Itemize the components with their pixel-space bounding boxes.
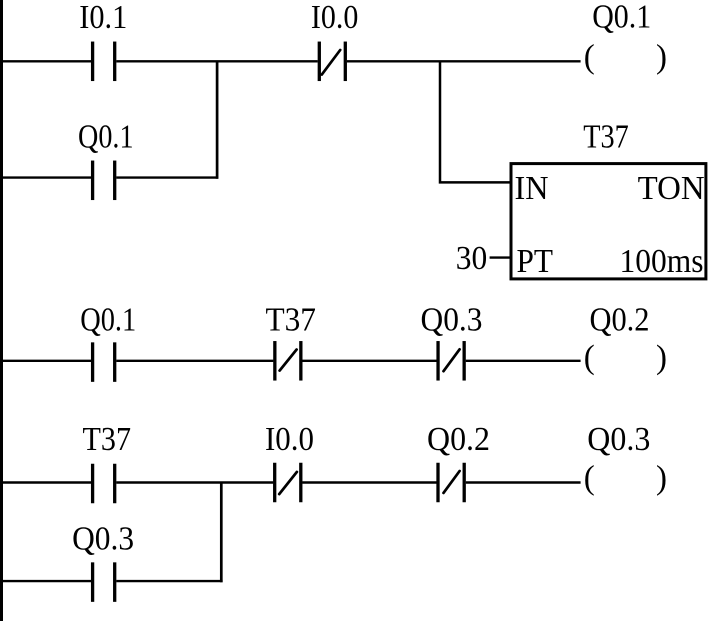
svg-text:T37: T37 — [83, 421, 132, 458]
svg-text:Q0.1: Q0.1 — [80, 301, 136, 338]
svg-text:T37: T37 — [265, 301, 316, 338]
contact T37 rung3 — [91, 464, 116, 504]
wire rail to I0.1 — [2, 60, 91, 62]
coil Q0.1 — [584, 38, 667, 75]
wire junction vertical rung1 — [216, 61, 219, 179]
svg-text:): ) — [656, 460, 667, 497]
svg-text:(: ( — [584, 38, 595, 75]
svg-text:I0.0: I0.0 — [311, 0, 359, 36]
contact Q0.1 rung2 — [91, 342, 116, 382]
svg-text:Q0.3: Q0.3 — [421, 301, 483, 338]
contact Q0.3 branch — [91, 562, 116, 602]
wire I0.1 to I0.0 — [116, 60, 317, 62]
svg-text:T37: T37 — [583, 119, 629, 156]
contact T37 rung2 (NC) — [273, 341, 302, 381]
svg-text:Q0.1: Q0.1 — [592, 0, 651, 36]
svg-text:30: 30 — [456, 240, 488, 277]
wire Q0.1 to T37 rung2 — [116, 360, 273, 362]
svg-text:Q0.3: Q0.3 — [587, 421, 650, 458]
contact I0.0 rung3 (NC) — [273, 463, 302, 503]
svg-text:Q0.1: Q0.1 — [78, 119, 134, 156]
left power rail — [0, 0, 3, 621]
timer T37 box — [511, 164, 706, 279]
wire T37 to Q0.3 rung2 — [302, 360, 436, 362]
wire T37 to I0.0 rung3 — [116, 481, 273, 483]
wire rail to T37 rung3 — [2, 481, 91, 483]
wire branch to timer IN — [440, 61, 510, 182]
wire rail to Q0.1 rung2 — [2, 360, 91, 362]
wire Q0.1 branch to junction — [116, 176, 218, 178]
wire Q0.2 to coil Q0.3 — [466, 481, 581, 483]
svg-text:100ms: 100ms — [620, 243, 704, 280]
svg-text:Q0.2: Q0.2 — [427, 421, 490, 458]
svg-text:(: ( — [584, 460, 595, 497]
wire I0.0 to Q0.2 rung3 — [302, 481, 436, 483]
svg-text:Q0.3: Q0.3 — [72, 520, 134, 557]
svg-text:): ) — [656, 38, 667, 75]
svg-text:): ) — [656, 339, 667, 376]
svg-text:Q0.2: Q0.2 — [590, 301, 650, 338]
wire Q0.3 to coil Q0.2 — [466, 360, 581, 362]
coil Q0.2 — [584, 339, 667, 376]
svg-text:I0.0: I0.0 — [265, 421, 314, 458]
wire junction vertical rung3 — [220, 483, 223, 583]
svg-text:I0.1: I0.1 — [79, 0, 127, 36]
contact Q0.1 branch — [91, 161, 116, 201]
wire PT stub — [490, 256, 511, 258]
svg-text:IN: IN — [515, 170, 549, 207]
contact Q0.3 rung2 (NC) — [436, 341, 465, 381]
svg-text:(: ( — [584, 339, 595, 376]
svg-text:TON: TON — [638, 170, 705, 207]
wire Q0.3 branch to junction — [116, 580, 222, 582]
contact I0.1 — [91, 42, 116, 82]
svg-text:PT: PT — [517, 243, 554, 280]
contact Q0.2 rung3 (NC) — [436, 463, 465, 503]
wire rail to Q0.3 branch contact — [2, 580, 91, 582]
contact I0.0 (NC) — [318, 42, 347, 82]
coil Q0.3 — [584, 460, 667, 497]
wire rail to Q0.1 branch contact — [2, 176, 91, 178]
wire I0.0 to coil Q0.1 — [347, 60, 581, 62]
